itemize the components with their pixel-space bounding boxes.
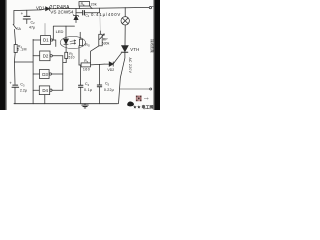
wire: D1 output stub right (53, 40, 56, 47)
wire: VTH gate from VD2 (113, 53, 121, 64)
wire: D1 output up to feed line (53, 26, 74, 39)
resistor R1 body (14, 45, 17, 53)
wire: R2 bottom to output bus (63, 59, 66, 63)
wire: switch to R1 (15, 29, 16, 44)
capacitor C5 plates (97, 85, 101, 87)
svg-text:160: 160 (83, 68, 90, 72)
svg-text:D4: D4 (42, 88, 48, 93)
inverter D3 box (40, 70, 50, 79)
wire: R3 right to VD2 bottom (91, 63, 105, 66)
svg-text:0.1μ: 0.1μ (84, 88, 92, 92)
svg-text:D1: D1 (43, 38, 49, 43)
optocoupler ellipse (60, 36, 85, 48)
capacitor C2 plates (23, 16, 30, 19)
svg-text:D2: D2 (43, 54, 49, 59)
wire: R1 to node (13, 53, 16, 63)
capacitor C2 bottom lead (fades) (26, 19, 28, 24)
wire: D4 output to bus (52, 89, 63, 91)
background (0, 0, 160, 110)
wire: D2 input (33, 55, 40, 57)
wire: LED top lead (65, 26, 67, 39)
watermark arrow dash (144, 98, 148, 100)
diode VD2 (109, 62, 113, 66)
svg-text:5.1M: 5.1M (17, 48, 27, 52)
svg-text:VTH: VTH (130, 47, 139, 52)
wire: node down to C3 (14, 62, 17, 84)
bottom ground rail (14, 103, 118, 105)
wire: D3 input (33, 73, 39, 75)
watermark grid icon (136, 95, 142, 101)
D1 output bubble (51, 39, 53, 41)
resistor R3 body (81, 63, 90, 67)
svg-text:AC 220V: AC 220V (128, 58, 132, 74)
wire: VD1/R4/C1 left junction (78, 6, 80, 9)
wire: LED cathode to R2 (65, 44, 67, 52)
thyristor VTH symbol (122, 46, 129, 52)
wire: D4 ground pin to rail (44, 95, 46, 104)
wire: C4 to rail (80, 87, 82, 104)
inverter D4 box (39, 86, 49, 95)
terminal top right (149, 6, 151, 8)
wire: R1 node to input bus (14, 61, 33, 63)
svg-text:LED: LED (56, 29, 64, 34)
wire: R3 left lead (79, 64, 81, 66)
wire: D1 input (33, 39, 40, 41)
svg-text:VD1: VD1 (36, 5, 45, 10)
wire: C1 leads (76, 8, 100, 13)
svg-text:0.41μ/400V: 0.41μ/400V (91, 12, 121, 17)
wire: junction to C4 (80, 65, 82, 85)
scan black bar left (0, 0, 6, 110)
svg-text:C2: C2 (31, 21, 36, 26)
wire: output bus (62, 56, 64, 90)
photoresistor RG body (79, 39, 82, 46)
capacitor C1 plates (83, 11, 85, 16)
watermark logo blob (127, 101, 134, 106)
wire: C5 tap (99, 65, 101, 85)
capacitor C2 top lead (26, 10, 28, 16)
wire: RG top lead (fades up toward VS) (79, 32, 81, 39)
capacitor C4 plates (79, 85, 83, 87)
scan black bar right (154, 0, 160, 110)
svg-text:★★: ★★ (133, 105, 141, 110)
svg-text:0.22μ: 0.22μ (104, 88, 114, 92)
switch SA blade (13, 24, 16, 28)
wire: D2 output to bus (52, 55, 62, 57)
inverter D2 box (40, 51, 50, 61)
svg-text:20k: 20k (91, 3, 97, 7)
LED light arrows (70, 40, 76, 44)
inverter D1 box (41, 36, 51, 45)
watermark group (127, 95, 153, 109)
potentiometer RP body (99, 34, 102, 46)
resistor R2 body (65, 52, 68, 58)
wire: R4 right lead (90, 6, 92, 9)
wire: lamp branch (124, 8, 126, 17)
ground symbol (82, 104, 89, 108)
wire: input bus (32, 39, 34, 103)
D3 output bubble (49, 73, 51, 75)
text labels (9, 2, 155, 93)
terminal bottom right (150, 88, 152, 90)
LED symbol (64, 39, 69, 44)
svg-text:R4: R4 (81, 2, 85, 7)
wire: RP top lead (99, 31, 101, 35)
wire: top-left rail (14, 9, 46, 11)
zener VS symbol (73, 9, 79, 17)
D4 output bubble (50, 89, 52, 91)
wire: C3 to ground rail (14, 88, 16, 104)
diode VD1 (46, 7, 50, 11)
svg-text:D3: D3 (42, 72, 48, 77)
D2 output bubble (50, 55, 52, 57)
wire: D1 power stub (44, 23, 46, 35)
svg-text:VD2: VD2 (107, 68, 114, 72)
wire: RP bottom to R3 right node (91, 46, 99, 63)
wire: D4 input (33, 89, 39, 91)
wire: VD1 output line (49, 7, 148, 8)
resistor R4 body (79, 2, 90, 6)
wire: RG bottom down to R3/C4 junction (78, 46, 80, 65)
svg-text:510: 510 (69, 56, 75, 60)
lamp EL (121, 17, 129, 25)
wire: D3 output to bus (52, 73, 63, 75)
wire: C5 to rail (99, 87, 101, 104)
svg-text:VS 2CW54: VS 2CW54 (50, 10, 74, 15)
wire: left rail down to switch (13, 11, 15, 25)
capacitor C3 plates (12, 85, 19, 87)
svg-text:+: + (21, 11, 24, 16)
RP arrow (99, 34, 104, 40)
svg-text:2.2μ: 2.2μ (20, 88, 27, 92)
svg-text:电工网: 电工网 (142, 103, 154, 109)
svg-text:530k: 530k (102, 42, 110, 46)
wire: mains neutral stub (120, 88, 150, 90)
wire: VTH cathode down to rail (119, 52, 125, 103)
svg-text:接线图集: 接线图集 (150, 39, 155, 53)
svg-text:47μ: 47μ (29, 26, 35, 30)
wire: lamp to SCR anode (124, 25, 126, 46)
